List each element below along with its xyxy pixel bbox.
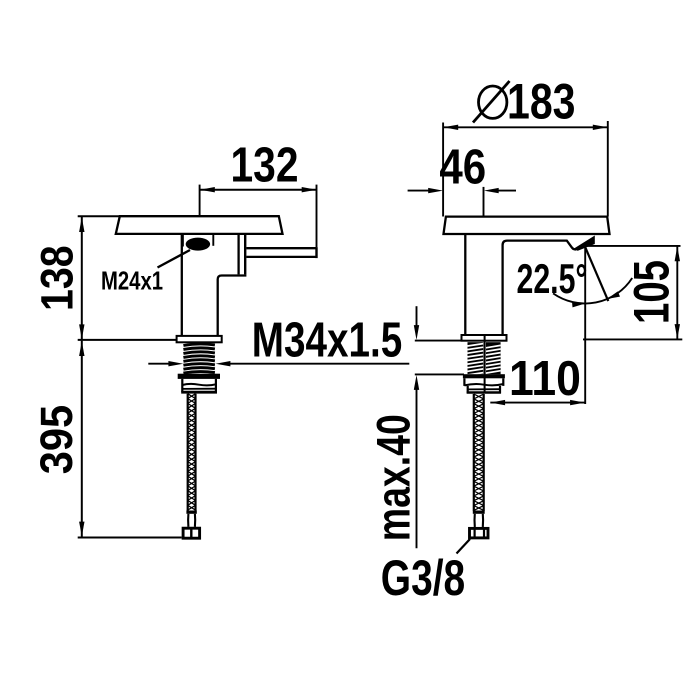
dim 183 line [443,125,607,130]
label 183 [507,73,576,130]
dim 110 line [490,400,585,405]
dim 105 top extension [584,245,681,247]
dim 395 line [79,341,84,537]
hose G3/8 fitting (left view) [183,528,200,538]
threaded shank M34 (side view) [183,344,215,373]
dim 132 line [200,187,317,192]
leader line M24x1 [158,250,191,268]
label M24x1 [101,266,163,296]
svg-text:132: 132 [231,138,299,193]
handle plate (front view) [444,217,610,234]
label 105 [622,260,679,324]
dim max40 upper extension [415,340,462,342]
dim 395 bottom extension [78,537,182,539]
svg-text:max.40: max.40 [367,414,420,541]
svg-text:G3/8: G3/8 [381,550,465,606]
aerator recess walls [183,235,213,247]
hose end tube (front view) [475,514,484,527]
body right edge upper (side view) [237,234,239,275]
dim 46 left arrow [408,188,443,193]
svg-text:M24x1: M24x1 [101,266,163,296]
locknut collar (front view) [463,374,505,378]
handle plate (side view) [116,216,283,234]
svg-text:395: 395 [31,405,82,474]
dim 132 left extension [199,185,201,217]
dim 183 left extension [442,123,444,217]
hose end tube (left view) [188,514,195,527]
locknut collar (side view) [178,374,220,379]
leader line G3/8 [457,539,471,554]
dim max40 upper arrow [414,306,419,340]
svg-text:105: 105 [622,260,679,324]
mounting flange (side view) [177,336,222,342]
label M34x1.5 [252,313,402,368]
angle arc 22.5deg [553,278,632,307]
flexible hose braid (front view) [474,394,484,511]
extension line top datum left view [78,215,121,217]
vertical reference line at spout tip [584,247,586,404]
label 138 [31,245,82,311]
aerator M24x1 (black ellipse) [186,238,210,251]
dim M34x1.5 right arrow and leader [216,361,410,366]
dim 132 right extension [316,185,318,247]
dim 46 extension [483,187,485,217]
dim max40 lower extension [415,373,464,375]
svg-text:M34x1.5: M34x1.5 [252,313,402,368]
label 46 [439,140,486,195]
svg-text:46: 46 [439,140,486,195]
body step and lower right edge (side view) [218,276,247,337]
deck extension line left view [78,339,177,341]
hose G3/8 fitting (front view) [470,528,489,538]
dim max40 lower arrow [414,375,419,548]
svg-text:183: 183 [507,73,576,130]
shank seam line (front view) [484,335,486,394]
hose braid end cap (left view) [186,511,196,514]
dim 105 line [675,246,680,339]
threaded shank M34 (front view) [468,342,501,375]
label 22.5deg [517,255,588,302]
mounting flange (front view) [462,335,507,341]
label 395 [31,405,82,474]
spout holder bar (side view) [244,234,246,275]
label max40 [367,414,420,541]
dim 138 line [79,216,84,339]
label diameter symbol [473,81,510,123]
label 110 [509,351,581,406]
locknut body (front view) [464,378,503,393]
spout outlet (black wedge) [573,236,595,251]
hose braid end cap (front view) [473,511,485,514]
svg-text:22.5°: 22.5° [517,255,588,302]
label 132 [231,138,299,193]
dim 46 right arrow [484,188,516,193]
body left edge (side view) [181,234,183,336]
flexible hose braid (left view) [188,394,196,511]
dim 183 right extension [607,121,609,217]
label G3/8 [381,550,465,606]
body right edge and spout top (front view) [503,241,576,336]
locknut body (side view) [181,379,217,392]
spout tube (side view) [246,247,316,258]
svg-text:110: 110 [509,351,581,406]
dim M34x1.5 left arrow [148,361,183,366]
svg-text:138: 138 [31,245,82,311]
stream direction line 22.5deg [585,248,608,302]
deck extension line right of front view [583,338,682,340]
body left edge (front view) [464,235,466,335]
